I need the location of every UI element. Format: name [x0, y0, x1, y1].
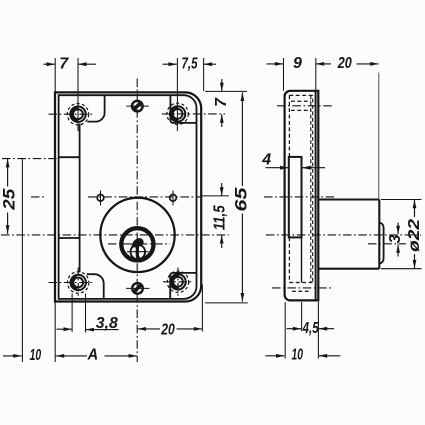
centerline cylinder axis (side) [266, 234, 421, 236]
side view hidden: top hole dashed bottom [291, 109, 311, 111]
svg-text:4,5: 4,5 [302, 320, 320, 337]
side view hidden: inner bottom dashed [289, 282, 313, 284]
dimension 7 (right side vertical) [213, 79, 230, 127]
extension line plate left edge bottom [54, 303, 56, 363]
extension line bolt face bottom [301, 302, 303, 331]
small hole mid-right vertical tick [172, 191, 174, 206]
svg-text:20: 20 [337, 55, 352, 72]
front view: bolt bottom edge [59, 237, 80, 239]
side view hidden: inner top dashed [289, 94, 313, 96]
extension line mid holes right [202, 195, 229, 197]
centerline bottom-left screw horizontal [49, 282, 94, 284]
dimension 4,5 (side bottom) [287, 320, 335, 337]
side view: cylinder top edge [318, 198, 379, 200]
key bit blob [132, 239, 143, 247]
svg-text:7: 7 [213, 97, 230, 107]
small hole mid-right [170, 195, 177, 202]
dimension diameter 22 [406, 200, 423, 269]
extension line plate left edge top [54, 58, 56, 92]
extension line cylinder end (20) [378, 73, 380, 200]
svg-text:9: 9 [293, 55, 302, 72]
key profile circle [131, 245, 146, 260]
side view: cylinder end face [378, 200, 380, 269]
side view: bolt (4mm) [289, 157, 302, 238]
cylinder housing circle [100, 198, 174, 272]
side view hidden: front wall dashed [288, 95, 290, 282]
dimension 7,5 (top) [163, 55, 217, 72]
keyway slot [136, 245, 139, 257]
side view hidden: top hole dashed top [291, 100, 311, 102]
dimension 65 (right side) [231, 92, 250, 301]
centerline top-left screw horizontal [49, 113, 94, 115]
side view: case outline [285, 91, 319, 301]
centerline cylinder axis (front) [1, 234, 229, 236]
svg-text:A: A [87, 347, 98, 364]
centerline bottom hole horizontal [126, 287, 150, 289]
front view: top-left screw pocket [87, 95, 104, 121]
extension line bottom edge right (65) [205, 302, 248, 304]
front view: lock case outer outline [55, 92, 201, 301]
centerline plug axis (front) [108, 243, 170, 245]
screw post bottom-right [167, 271, 188, 292]
centerline mid holes (side) [264, 196, 334, 198]
dimension 10 (front bottom left) [3, 347, 41, 364]
extension line cylinder bottom right [381, 268, 422, 270]
dimension 20 (side top) [337, 55, 379, 72]
extension line cylinder top right [381, 199, 422, 201]
centerline top-right screw horizontal [162, 113, 225, 115]
side view hidden: flange dashed pair [311, 95, 313, 282]
extension line x=22 (10 dim) [21, 159, 23, 362]
centerline top hole (side) [277, 105, 334, 107]
small hole mid-left [97, 195, 104, 202]
centerline bottom-right screw horizontal [163, 281, 193, 283]
side view hidden: bottom hole dashed [292, 290, 310, 292]
svg-text:3,8: 3,8 [96, 315, 118, 332]
extension line top-left screw vertical [77, 58, 79, 131]
svg-text:25: 25 [0, 188, 18, 211]
hole bottom-centre (slashed) [132, 283, 143, 294]
screw post top-right [167, 103, 188, 124]
centerline plug axis (side) [368, 243, 406, 245]
extension line plate right edge top [203, 58, 205, 91]
dimension 20 (front bottom) [137, 322, 202, 339]
front view: bottom-left screw pocket [87, 274, 104, 299]
centerline bottom-left screw vertical [77, 268, 79, 298]
svg-text:65: 65 [231, 187, 250, 212]
extension line 3.8 left [71, 294, 73, 333]
front view: bottom-right screw pocket [170, 273, 196, 299]
centerline top hole horizontal [126, 105, 148, 107]
screw post bottom-left [68, 272, 89, 293]
centerline bottom-right screw vertical [177, 268, 179, 298]
extension line plate right edge bottom [201, 285, 203, 332]
svg-text:11,5: 11,5 [212, 204, 229, 230]
svg-text:20: 20 [160, 322, 174, 339]
small hole mid-left vertical tick [100, 191, 102, 206]
side view: bolt guide line [301, 237, 303, 282]
dimension 4 (bolt) [261, 152, 325, 170]
cylinder plug ring [121, 228, 153, 260]
dimension 10 (side bottom) [265, 346, 340, 363]
dimension 7 (top left) [44, 55, 97, 72]
side view: cylinder bottom edge [318, 268, 379, 270]
svg-text:10: 10 [291, 346, 303, 363]
side view: case inner right line [315, 91, 317, 301]
dimension 25 (left side) [0, 159, 18, 234]
svg-text:7: 7 [59, 55, 69, 72]
front view: left flange fold line [79, 124, 81, 273]
dimension A (front bottom) [56, 347, 138, 364]
extension line side case right top [315, 58, 317, 91]
extension line top-right screw vertical [176, 58, 178, 131]
main vertical centerline [136, 79, 138, 363]
svg-text:ø22: ø22 [406, 219, 423, 252]
extension line side case left top [283, 58, 285, 91]
front view: lock case inner outline [59, 95, 197, 299]
extension line side case left bottom [284, 302, 286, 359]
key profile circle horizontal line [127, 251, 149, 253]
extension line side case right bottom [317, 302, 319, 359]
svg-text:7,5: 7,5 [182, 55, 199, 72]
extension line 3.8 right [85, 294, 87, 333]
dimension 11,5 (right side) [212, 183, 229, 248]
centerline bolt top extension left [2, 158, 58, 160]
svg-text:10: 10 [30, 347, 42, 364]
dimension 3,8 (bottom) [57, 315, 119, 332]
front view: top-right screw pocket [170, 95, 196, 123]
centerline mid holes horizontal [31, 196, 202, 198]
extension line top edge right (65/7) [205, 90, 247, 92]
svg-text:4: 4 [261, 152, 271, 169]
hole top-centre (slashed) [132, 101, 143, 112]
front view: bolt top edge [59, 156, 80, 158]
centerline bottom hole (side) [272, 287, 333, 289]
side view: cylinder end bump [379, 223, 383, 263]
key profile foot [136, 256, 140, 262]
screw post top-left [67, 104, 88, 125]
dimension 9 (side top) [267, 55, 332, 72]
dimension 3 (plug offset) [387, 223, 404, 257]
svg-text:3: 3 [387, 235, 404, 244]
